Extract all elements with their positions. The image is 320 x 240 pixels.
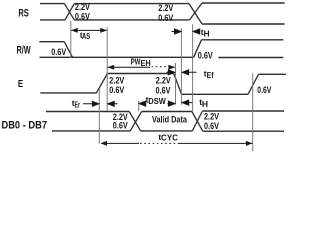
dimension tDSW left arrow: [139, 101, 146, 106]
wire DB right band top rail: [202, 110, 284, 112]
guide line at RS/RW change x71: [70, 21, 72, 58]
wire R/W rising edge: [194, 40, 202, 58]
wire DB valid band top rail: [142, 111, 192, 113]
svg-text:0.6V: 0.6V: [158, 13, 173, 23]
wire DB valid band bottom rail: [141, 130, 193, 132]
svg-text:0.6V: 0.6V: [156, 86, 171, 96]
dimension tH bottom arrow: [182, 100, 192, 105]
svg-text:EH: EH: [141, 59, 151, 68]
guide line at E fall bottom x181.4: [180, 28, 182, 105]
wire RS left band top rail: [40, 3, 64, 5]
svg-text:DB0 - DB7: DB0 - DB7: [2, 120, 48, 132]
wire E falling edge: [174, 74, 182, 95]
svg-text:2.2V: 2.2V: [75, 2, 90, 12]
guide line at data valid x138.7: [138, 101, 140, 111]
wire E high rail right: [259, 73, 287, 75]
wire DB band left bottom rail: [52, 130, 130, 132]
dimension tCYC right arrowhead: [246, 141, 253, 146]
dimension tAS left arrowhead: [71, 28, 78, 33]
dimension tAS right arrowhead: [100, 28, 107, 33]
wire DB right band bottom rail: [203, 130, 284, 132]
node DB crossover 1: [129, 112, 142, 131]
svg-text:CYC: CYC: [161, 133, 178, 143]
dimension tH top left arrow: [172, 29, 182, 34]
svg-text:E: E: [18, 78, 23, 90]
dimension tCYC line right: [179, 142, 252, 144]
dimension PWEH left arrowhead: [108, 65, 115, 70]
dimension tEf right arrow: [182, 70, 196, 75]
wire RS right band top rail: [202, 2, 285, 4]
svg-text:Er: Er: [75, 99, 81, 109]
dimension tDSW line right: [168, 101, 175, 106]
svg-text:0.6V: 0.6V: [257, 85, 271, 95]
dimension tEr right arrow: [108, 101, 118, 106]
guide line at E rise 0.6V x99: [98, 89, 100, 144]
node RS crossover 1: [64, 4, 74, 20]
dimension tEr left arrow: [83, 101, 99, 106]
svg-text:AS: AS: [82, 32, 91, 41]
wire R/W dont-care low rail right: [218, 57, 283, 59]
dimension tCYC dotted line: [106, 142, 139, 144]
node DB crossover 2: [192, 112, 203, 131]
dimension tCYC left arrowhead: [101, 141, 108, 146]
svg-text:0.6V: 0.6V: [204, 121, 219, 131]
guide line at E rise top x107: [106, 27, 108, 111]
wire E low rail left: [40, 92, 96, 94]
wire DB band left top rail: [46, 111, 129, 113]
wire E rising edge right: [248, 74, 259, 94]
dimension tH top right arrow: [193, 29, 200, 34]
svg-text:2.2V: 2.2V: [204, 112, 219, 122]
svg-text:2.2V: 2.2V: [109, 76, 124, 86]
wire R/W falling edge: [64, 42, 72, 58]
svg-text:2.2V: 2.2V: [156, 76, 171, 86]
wire RS left band bottom rail: [40, 19, 65, 21]
svg-text:0.6V: 0.6V: [113, 121, 128, 131]
dimension PWEH dotted segment: [152, 66, 168, 68]
guide line at E rise right x252.7: [252, 74, 254, 152]
wire R/W high rail right: [202, 39, 284, 41]
wire R/W high rail left: [39, 41, 64, 43]
svg-text:2.2V: 2.2V: [158, 3, 173, 13]
svg-text:0.6V: 0.6V: [109, 85, 124, 95]
dimension tEf left arrow: [167, 70, 175, 75]
wire E low rail mid: [182, 93, 249, 95]
wire RS mid band bottom rail: [74, 19, 189, 21]
guide line at E fall 2.2V x175.5: [175, 63, 177, 105]
dimension PWEH right arrowhead: [168, 65, 175, 70]
wire R/W low rail: [40, 56, 194, 58]
node RS crossover 2: [189, 3, 202, 24]
svg-text:H: H: [204, 28, 210, 38]
dimension PWEH line right: [169, 66, 175, 68]
svg-text:H: H: [202, 99, 208, 109]
svg-text:DSW: DSW: [148, 96, 166, 106]
svg-text:Ef: Ef: [207, 70, 214, 80]
svg-text:R/W: R/W: [17, 44, 32, 56]
guide line at RS/RW release x192.6: [192, 24, 194, 111]
wire E rising edge: [96, 74, 107, 93]
svg-text:0.6V: 0.6V: [198, 50, 213, 60]
svg-text:Valid Data: Valid Data: [152, 114, 188, 124]
wire RS right band bottom rail: [202, 23, 285, 25]
dimension PWEH line: [108, 66, 150, 68]
wire E high rail: [107, 73, 173, 75]
svg-text:0.6V: 0.6V: [51, 47, 66, 57]
svg-text:0.6V: 0.6V: [75, 11, 90, 21]
dimension tAS line: [71, 29, 107, 31]
svg-text:RS: RS: [18, 7, 28, 19]
wire RS mid band top rail: [74, 3, 189, 5]
